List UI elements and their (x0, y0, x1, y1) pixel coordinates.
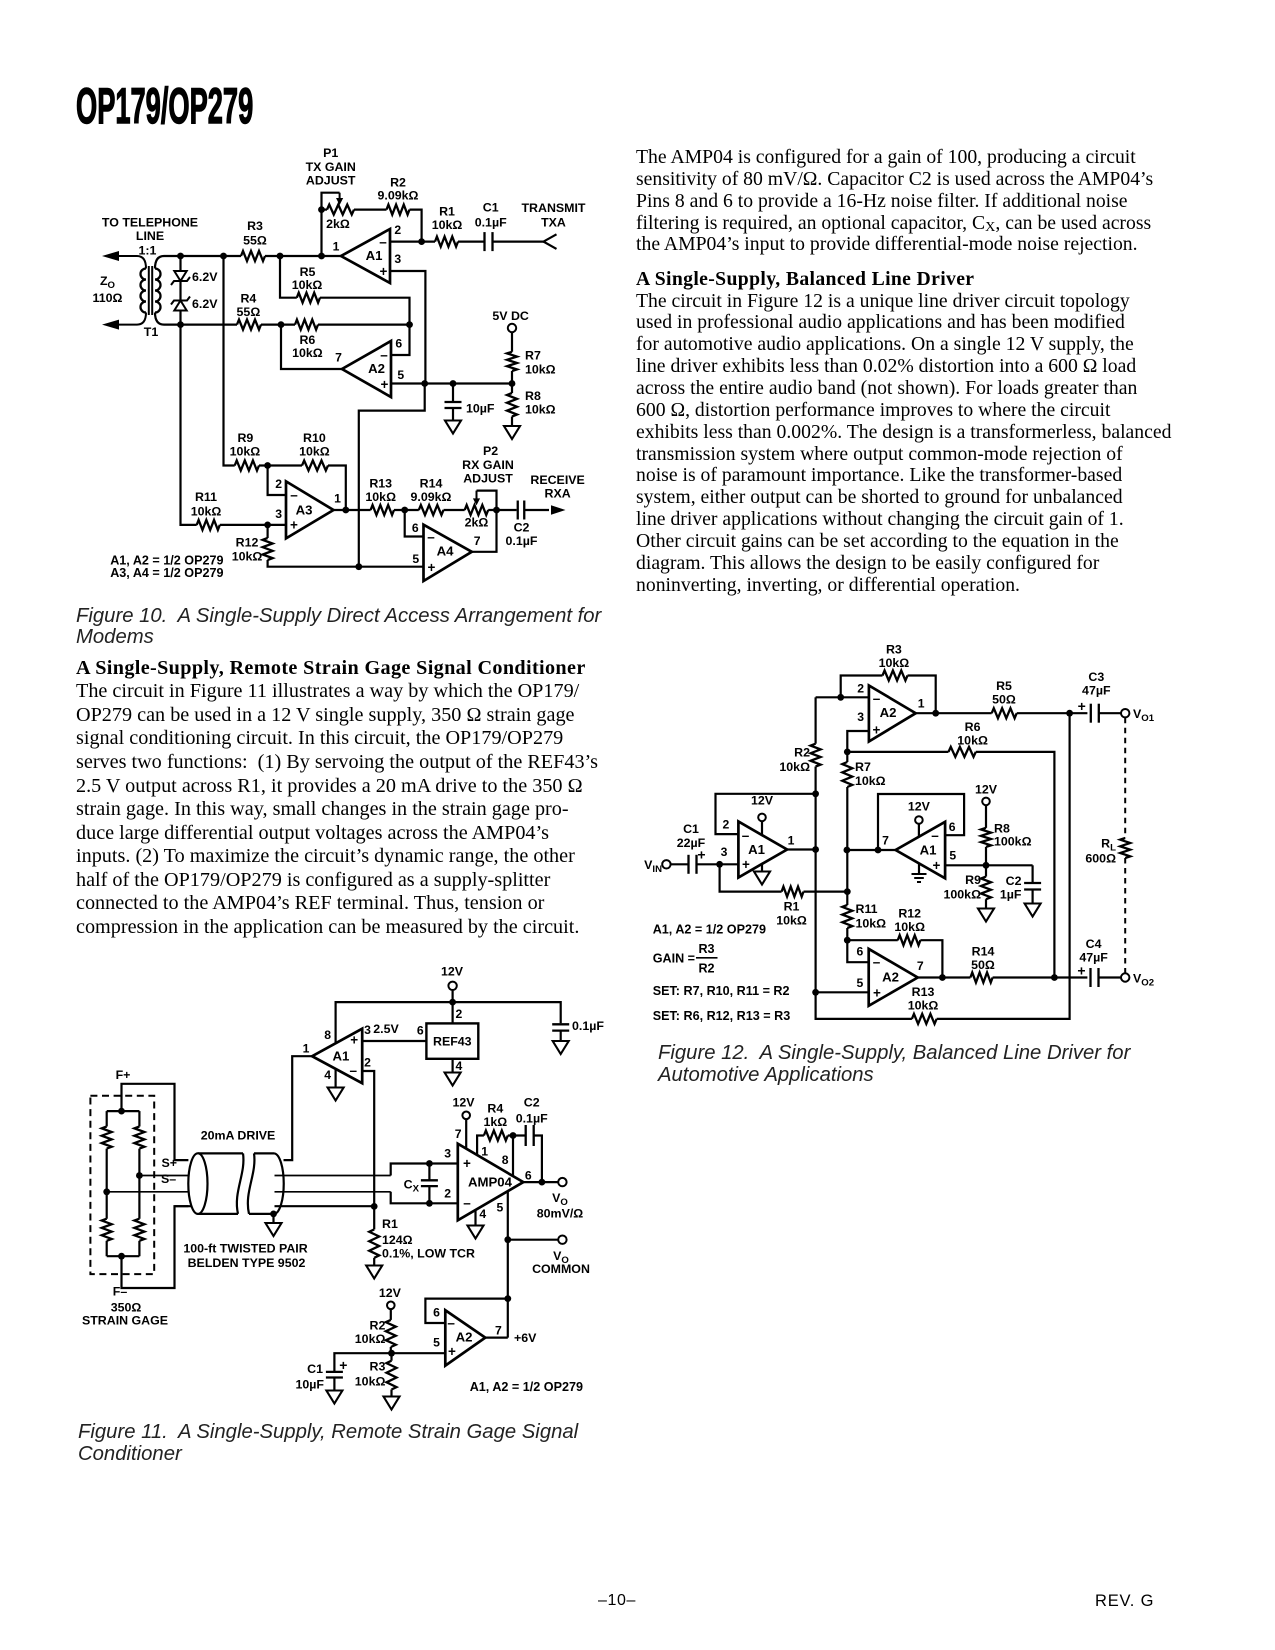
left column heading + paragraph (76, 657, 598, 940)
svg-text:+: + (428, 560, 436, 575)
op-amp AMP04 (458, 1144, 524, 1221)
terminal 5V DC (508, 324, 516, 332)
resistor R1f11 (369, 1229, 379, 1257)
svg-text:12V: 12V (908, 799, 931, 813)
svg-text:C1: C1 (307, 1362, 323, 1376)
ground below R8 (504, 426, 520, 439)
wire drive return line (175, 1205, 375, 1207)
wire C1 to TXA (493, 241, 545, 243)
resistor R9 (235, 461, 259, 471)
svg-text:3: 3 (857, 710, 864, 724)
svg-text:A1: A1 (920, 842, 937, 857)
svg-text:10kΩ: 10kΩ (957, 733, 988, 747)
wire rail R11-pin6 (846, 928, 848, 940)
junction pin5/pin3 node (421, 380, 428, 387)
wire line+ rail (181, 255, 242, 257)
wire 12V to R8 (985, 805, 987, 828)
wire 12V to node (452, 990, 454, 1002)
wire cap to gnd (452, 408, 454, 421)
ground below AMP04 (468, 1226, 484, 1239)
svg-text:10kΩ: 10kΩ (894, 920, 925, 934)
wire A1M fb bracket (878, 794, 964, 850)
terminal VO2 (1121, 973, 1129, 981)
capacitor C bypass 0.1uF (552, 1024, 569, 1030)
junction A1 out node (812, 846, 819, 853)
wire A2 pin5 rail (391, 382, 512, 384)
svg-text:2: 2 (857, 682, 864, 696)
svg-text:3: 3 (394, 252, 401, 266)
wire R6 wire left (847, 751, 948, 753)
svg-text:+6V: +6V (514, 1331, 537, 1345)
op-amp A1 (left) (738, 822, 787, 878)
P2 wiper arrow (476, 491, 478, 501)
terminal 12V div (982, 798, 990, 806)
svg-text:10kΩ: 10kΩ (776, 914, 807, 928)
resistor R14 (419, 505, 444, 515)
svg-text:R3: R3 (886, 642, 902, 656)
svg-text:7: 7 (495, 1324, 502, 1338)
wire A1M out wire (847, 849, 896, 851)
wire shield stub (272, 1214, 274, 1223)
terminal 12V top (448, 982, 456, 990)
resistor P1 element (327, 205, 354, 215)
wire R12 wire right (920, 940, 942, 977)
junction R3 out node (277, 253, 284, 260)
svg-text:–: – (931, 828, 939, 843)
arrow to telephone line (top) (102, 251, 119, 261)
svg-text:2: 2 (456, 1007, 463, 1021)
wire A1L out wire (787, 848, 816, 850)
svg-text:+: + (448, 1344, 456, 1359)
svg-text:R2: R2 (370, 1318, 386, 1332)
resistor R12 (263, 538, 273, 560)
junction outb node (939, 974, 946, 981)
svg-text:100kΩ: 100kΩ (944, 888, 982, 902)
svg-text:2: 2 (275, 477, 282, 491)
wire P1 left terminal (322, 209, 328, 211)
svg-text:–: – (463, 1196, 471, 1211)
junction A2 fb node (406, 321, 413, 328)
wire A2b pin6 wire (847, 940, 868, 962)
wire R12 bottom (268, 560, 424, 567)
svg-text:R10: R10 (303, 431, 326, 445)
svg-text:47µF: 47µF (1079, 950, 1108, 964)
svg-text:C4: C4 (1086, 937, 1102, 951)
footer revision (1095, 1592, 1154, 1611)
wire bridge right bot lead (138, 1241, 140, 1256)
svg-text:2.5V: 2.5V (373, 1022, 399, 1036)
resistor R14f12 (970, 973, 992, 983)
svg-text:SET: R6, R12, R13 = R3: SET: R6, R12, R13 = R3 (653, 1009, 791, 1023)
ground A1 mid (912, 874, 927, 882)
terminal 12V A1M (915, 816, 923, 824)
resistor R5f12 (992, 708, 1017, 718)
wire R1 wire (720, 864, 782, 891)
wire A4 pin6 wire (405, 510, 424, 537)
capacitor C3 (1091, 704, 1099, 723)
svg-text:–: – (447, 1316, 455, 1331)
svg-text:1: 1 (788, 834, 795, 848)
junction A3 out node (342, 507, 349, 514)
junction S- node (103, 1188, 110, 1195)
svg-text:1: 1 (481, 1145, 488, 1159)
svg-text:5: 5 (949, 849, 956, 863)
wire splitter to pin5 (392, 1352, 446, 1354)
wire A2t pin2 wire (816, 696, 869, 698)
svg-text:5: 5 (497, 1201, 504, 1215)
svg-text:5: 5 (412, 552, 419, 566)
capacitor C2f11 (526, 1125, 534, 1146)
svg-text:P1: P1 (323, 146, 338, 160)
ground below R1 (366, 1266, 382, 1279)
ground below R3 f11 (384, 1397, 400, 1410)
resistor R2 (387, 205, 410, 215)
junction rail/R9 branch (220, 253, 227, 260)
wire rail R1-R11 (846, 892, 848, 905)
svg-text:50Ω: 50Ω (971, 958, 995, 972)
capacitor C bypass 10uF (445, 402, 462, 408)
wire AMP04 out (523, 1181, 557, 1183)
svg-text:–: – (290, 488, 298, 503)
svg-text:R7: R7 (525, 349, 541, 363)
wire A1f11 out wire (284, 1056, 313, 1160)
wire 12V stub amp (465, 1119, 467, 1149)
wire A2b out wire (918, 976, 971, 978)
svg-text:ADJUST: ADJUST (306, 173, 356, 187)
junction bridge bottom node (118, 1253, 125, 1260)
svg-text:+: + (1078, 698, 1086, 714)
wire R7 to node (511, 371, 513, 393)
wire R5 to A2 node (320, 298, 410, 325)
wire R1 to rail (804, 890, 848, 892)
resistor R9f12 (981, 877, 991, 900)
svg-text:+: + (339, 1357, 347, 1373)
svg-text:6.2V: 6.2V (192, 297, 218, 311)
svg-text:R4: R4 (487, 1102, 503, 1116)
ground below C1 f11 (326, 1391, 342, 1404)
resistor R6f12 (949, 747, 976, 757)
svg-text:10kΩ: 10kΩ (230, 444, 261, 458)
svg-text:P2: P2 (483, 444, 498, 458)
wire A3 pin2 wire (268, 466, 286, 496)
svg-text:10kΩ: 10kΩ (355, 1332, 386, 1346)
wire line+ rail right of R3 (265, 255, 341, 257)
wire A2b pin5 wire (816, 991, 869, 993)
op-amp A1 (mid) (896, 822, 946, 879)
svg-text:7: 7 (917, 959, 924, 973)
svg-text:0.1%, LOW TCR: 0.1%, LOW TCR (382, 1246, 475, 1260)
svg-text:A1, A2 = 1/2 OP279: A1, A2 = 1/2 OP279 (470, 1380, 583, 1394)
junction VO2 node (1051, 974, 1058, 981)
junction P2 node (493, 507, 500, 514)
svg-text:+: + (290, 518, 298, 533)
svg-text:2: 2 (394, 223, 401, 237)
ground A1 left (754, 872, 770, 885)
junction pin6 node (844, 937, 851, 944)
junction splitter node (388, 1350, 395, 1357)
svg-text:R14: R14 (972, 944, 995, 958)
svg-text:6.2V: 6.2V (192, 270, 218, 284)
wire A2 pin6 wire (391, 325, 410, 355)
wire S+ line (139, 1175, 390, 1177)
wire C1 to gnd (333, 1378, 335, 1391)
transformer T1 (102, 251, 181, 330)
wire bridge top bar (107, 1110, 140, 1112)
svg-text:0.1µF: 0.1µF (506, 534, 538, 548)
wire S- bracket (391, 1192, 458, 1204)
wire bridge right mid (138, 1149, 140, 1219)
svg-text:12V: 12V (452, 1096, 475, 1110)
junction fb tap (875, 847, 882, 854)
svg-text:5: 5 (397, 368, 404, 382)
wire R14-P2 (444, 509, 465, 511)
svg-text:2: 2 (364, 1056, 371, 1070)
svg-text:100-ft TWISTED PAIR: 100-ft TWISTED PAIR (183, 1241, 307, 1255)
svg-text:R11: R11 (195, 490, 217, 504)
Figure 10 caption (76, 606, 601, 649)
wire R6 wire right (976, 752, 1055, 978)
wire A4 out (472, 510, 497, 552)
svg-text:A2: A2 (882, 969, 899, 984)
svg-text:10kΩ: 10kΩ (856, 916, 887, 930)
wire line- rail (181, 324, 238, 326)
svg-text:350Ω: 350Ω (111, 1300, 142, 1314)
svg-text:T1: T1 (144, 325, 159, 339)
svg-text:C1: C1 (683, 822, 699, 836)
resistor R6 (295, 320, 318, 330)
wire VIN to C1 (671, 863, 689, 865)
right column paragraph 1 (636, 147, 1153, 256)
wire R5 to VO1 (1017, 712, 1088, 714)
svg-text:R1: R1 (439, 204, 455, 218)
junction out/R3 node (932, 710, 939, 717)
junction out/C2 node (539, 1179, 546, 1186)
junction R1/rail node (844, 888, 851, 895)
wire R2 rail bottom (814, 767, 816, 993)
resistor R11f12 (842, 905, 852, 928)
svg-text:6: 6 (395, 336, 402, 350)
svg-text:110Ω: 110Ω (93, 291, 123, 305)
svg-text:3: 3 (721, 845, 728, 859)
junction pot tap node (318, 253, 325, 260)
svg-text:4: 4 (456, 1059, 463, 1073)
wire R1 to gnd (373, 1258, 375, 1266)
junction S+ node (136, 1172, 143, 1179)
wire C2 to out (534, 1136, 542, 1183)
svg-text:R13: R13 (369, 476, 392, 490)
resistor R7 (507, 352, 517, 371)
svg-text:R14: R14 (420, 476, 443, 490)
svg-text:600Ω: 600Ω (1085, 851, 1116, 865)
svg-text:0.1µF: 0.1µF (475, 215, 507, 229)
resistor P2 element (465, 505, 489, 515)
svg-text:F–: F– (113, 1285, 128, 1299)
wire bridge left top lead (106, 1111, 108, 1126)
wire node to R3 (390, 1353, 392, 1361)
svg-text:9.09kΩ: 9.09kΩ (378, 189, 419, 203)
svg-text:–: – (379, 235, 387, 250)
svg-text:+: + (380, 264, 388, 279)
junction A3 inv node (264, 462, 271, 469)
svg-text:RXA: RXA (545, 486, 571, 500)
svg-text:10µF: 10µF (296, 1378, 325, 1392)
wire AMP04 gnd stub (474, 1210, 476, 1225)
svg-text:6: 6 (417, 1024, 424, 1038)
wire R2 to pin2 (410, 210, 422, 242)
svg-text:C1: C1 (483, 201, 499, 215)
svg-text:GAIN =: GAIN = (653, 952, 695, 966)
svg-text:R7: R7 (855, 760, 871, 774)
svg-text:12V: 12V (379, 1286, 402, 1300)
svg-text:A3: A3 (296, 503, 313, 518)
svg-text:1: 1 (303, 1042, 310, 1056)
svg-text:3: 3 (364, 1023, 371, 1037)
wire R10 out (328, 466, 346, 511)
svg-text:C2: C2 (1006, 874, 1022, 888)
svg-text:–: – (873, 691, 881, 706)
svg-text:2kΩ: 2kΩ (465, 516, 489, 530)
svg-text:R4: R4 (240, 292, 256, 306)
wire VO COMMON wire (508, 1239, 558, 1241)
wire bias rail to A4 (359, 384, 425, 567)
svg-text:1:1: 1:1 (139, 243, 157, 257)
svg-text:7: 7 (335, 351, 342, 365)
wire C2 branch (1031, 865, 1033, 883)
strain gage bridge box (dashed) (90, 1096, 154, 1274)
wire Cx bottom lead (428, 1186, 430, 1203)
svg-text:47µF: 47µF (1082, 683, 1111, 697)
svg-text:6: 6 (857, 945, 864, 959)
ground below A1 fig11 (328, 1088, 344, 1101)
wire bridge right top lead (138, 1111, 140, 1126)
svg-text:R9: R9 (237, 431, 253, 445)
junction Cx bottom node (426, 1200, 433, 1207)
capacitor C1 (485, 232, 493, 251)
svg-text:R12: R12 (236, 536, 259, 550)
P1 wiper arrow (339, 193, 341, 200)
svg-text:5: 5 (433, 1336, 440, 1350)
svg-text:TX GAIN: TX GAIN (306, 160, 356, 174)
zener diode D1 6.2V (174, 271, 186, 281)
wire R13-R14 (394, 509, 419, 511)
wire R4 loop (477, 1136, 484, 1156)
capacitor CX (421, 1180, 438, 1186)
svg-text:3: 3 (444, 1146, 451, 1160)
svg-text:R12: R12 (898, 907, 921, 921)
junction A4 pin5 node (355, 563, 362, 570)
wire cap to gnd f11 (560, 1031, 562, 1041)
resistor R3f11 (387, 1361, 397, 1390)
wire P2 bracket (477, 491, 497, 510)
svg-text:VO: VO (552, 1191, 568, 1208)
svg-text:10kΩ: 10kΩ (525, 403, 556, 417)
svg-text:9.09kΩ: 9.09kΩ (411, 490, 452, 504)
resistor R12f12 (898, 935, 921, 945)
svg-text:R6: R6 (299, 333, 315, 347)
wire A2t pin3 wire (847, 731, 869, 752)
Figure 10 schematic: Single-Supply Direct Access Arrangement for Modems (60, 140, 640, 600)
svg-text:6: 6 (412, 521, 419, 535)
wire bridge left bot lead (106, 1241, 108, 1256)
wire R4 to C2 (508, 1134, 526, 1136)
op-amp A4 (424, 525, 472, 581)
resistor R7f12 (842, 762, 852, 787)
svg-text:3: 3 (275, 507, 282, 521)
svg-text:12V: 12V (441, 965, 464, 979)
wire 12V stub (761, 821, 763, 835)
wire bridge left mid (106, 1149, 108, 1219)
junction fb/ref node (504, 1295, 511, 1302)
resistor R1 (435, 237, 458, 247)
wire 12V left branch (336, 1002, 453, 1043)
wire gnd stub mid (918, 863, 920, 874)
wire A2f11 out wire (485, 1336, 508, 1338)
junction R13/R14 node (401, 507, 408, 514)
resistor gage RC (102, 1219, 112, 1241)
capacitor C1f11 (326, 1372, 343, 1378)
wire R2 rail top (814, 697, 816, 743)
svg-text:10kΩ: 10kΩ (355, 1375, 386, 1389)
wire R3 loop right (908, 676, 936, 714)
ground below 10uF (445, 421, 461, 434)
wire S- line (107, 1191, 391, 1193)
wire REF43 pin4 stub (452, 1059, 454, 1073)
wire A2f11 fb bracket (425, 1299, 507, 1323)
svg-text:10kΩ: 10kΩ (191, 504, 222, 518)
op-amp A2 (top) (869, 686, 916, 742)
resistor R10 (302, 461, 328, 471)
svg-text:4: 4 (324, 1068, 331, 1082)
junction zener tap (177, 253, 184, 260)
resistor R4f11 (484, 1131, 508, 1141)
junction 12V node (449, 999, 456, 1006)
wire A1 pin2 wire (390, 241, 435, 243)
svg-text:A1: A1 (366, 248, 383, 263)
svg-text:A2: A2 (456, 1330, 473, 1345)
svg-text:8: 8 (324, 1028, 331, 1042)
svg-text:4: 4 (479, 1207, 486, 1221)
svg-text:R8: R8 (994, 821, 1010, 835)
resistor gage RA (102, 1127, 112, 1149)
junction VO1 node (1066, 710, 1073, 717)
terminal VIN (662, 860, 670, 868)
right column heading + paragraph 2 (636, 269, 1171, 597)
svg-text:6: 6 (525, 1169, 532, 1183)
resistor RL (1120, 838, 1130, 858)
svg-text:R3: R3 (698, 942, 714, 956)
svg-text:BELDEN TYPE 9502: BELDEN TYPE 9502 (188, 1256, 306, 1270)
wire rail R4-R6 (261, 324, 295, 326)
svg-text:R6: R6 (965, 720, 981, 734)
svg-text:1: 1 (333, 240, 340, 254)
svg-text:AMP04: AMP04 (468, 1175, 513, 1190)
junction pin3 node (716, 861, 723, 868)
terminal 12V A1L (758, 814, 766, 822)
op-amp A1 (341, 229, 390, 283)
wire P2 right (488, 509, 516, 511)
svg-text:124Ω: 124Ω (382, 1233, 413, 1247)
svg-text:10kΩ: 10kΩ (779, 760, 810, 774)
svg-text:R11: R11 (856, 902, 878, 916)
wire A1L pin2 bracket (716, 794, 816, 834)
wire R7 to pin7 (846, 787, 848, 892)
svg-text:22µF: 22µF (677, 836, 706, 850)
svg-text:VIN: VIN (644, 858, 662, 875)
svg-text:1: 1 (918, 696, 925, 710)
svg-text:A2: A2 (880, 705, 897, 720)
svg-text:S–: S– (161, 1172, 176, 1186)
resistor R4 (237, 320, 261, 330)
